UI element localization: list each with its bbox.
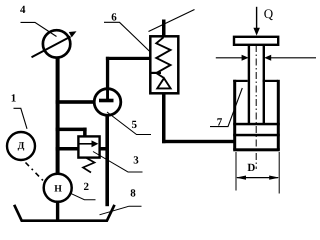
svg-text:2: 2: [84, 181, 90, 193]
wire valve 6 bottom pipe to cylinder: [162, 93, 166, 143]
component circle 5: [94, 89, 121, 116]
wire unit 5 top pipe: [106, 57, 109, 88]
svg-text:4: 4: [20, 4, 26, 16]
wire return column to tank: [105, 117, 109, 207]
wire branch to valve 3 left: [56, 147, 79, 151]
dimension D arrow: [237, 177, 278, 179]
cylinder bottom: [233, 148, 280, 151]
pump circle 2 (letter N): [44, 174, 72, 202]
wire branch to valve 3 top: [56, 128, 87, 132]
load arrow Q: [256, 7, 258, 30]
wire main pump column: [56, 57, 60, 175]
cylinder centerline: [255, 45, 257, 169]
thin diagonal line above valve 6: [149, 10, 195, 32]
component circle 4 (adjustable unit): [43, 30, 70, 57]
dimension D extension lines: [235, 152, 237, 191]
wire valve 6 top pipe: [162, 20, 166, 37]
svg-text:1: 1: [11, 93, 17, 105]
valve 6 seat line: [151, 72, 162, 74]
svg-text:8: 8: [130, 188, 136, 200]
svg-text:5: 5: [132, 119, 138, 131]
valve 6 poppet triangle: [157, 78, 170, 88]
wire valve 3 right stub: [99, 147, 107, 151]
coupling dash-dot shaft: [26, 163, 45, 182]
svg-text:Д: Д: [18, 141, 25, 152]
cylinder right wall: [277, 80, 280, 150]
valve 6 spring: [156, 37, 170, 78]
motor circle 1 (letter D): [7, 132, 35, 160]
svg-text:Q: Q: [264, 6, 274, 21]
valve 3 spring: [83, 158, 95, 173]
cylinder top plate: [234, 37, 278, 45]
rod diameter arrows: [216, 57, 242, 59]
piston band lines: [233, 123, 280, 126]
tank: [14, 205, 114, 221]
svg-text:Н: Н: [54, 183, 62, 194]
cylinder rod walls: [248, 45, 250, 124]
wire pump suction pipe: [56, 202, 59, 221]
svg-text:3: 3: [133, 155, 139, 167]
valve 3 body: [78, 136, 99, 157]
wire branch to unit 5: [56, 100, 94, 104]
valve 3 arrow: [79, 143, 92, 145]
cylinder left wall: [233, 80, 236, 150]
valve 6 body: [150, 36, 178, 93]
svg-text:D: D: [247, 162, 255, 174]
cylinder body top edges: [233, 80, 248, 82]
svg-text:6: 6: [111, 11, 117, 23]
